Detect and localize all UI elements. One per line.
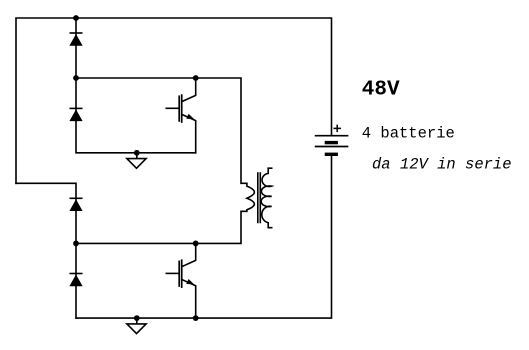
svg-text:48V: 48V xyxy=(362,79,400,102)
svg-text:4 batterie: 4 batterie xyxy=(362,124,455,142)
svg-text:da 12V in serie: da 12V in serie xyxy=(372,156,512,174)
